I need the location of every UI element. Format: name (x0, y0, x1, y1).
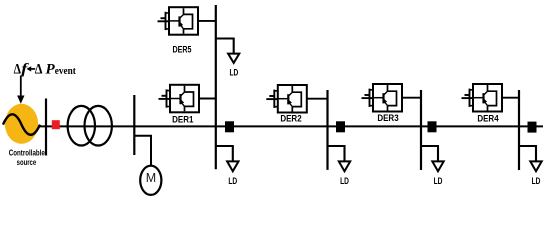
svg-text:DER5: DER5 (173, 44, 192, 54)
svg-text:event: event (55, 65, 76, 77)
svg-text:DER3: DER3 (377, 113, 398, 123)
svg-text:Controllable: Controllable (9, 147, 45, 157)
svg-text:DER4: DER4 (477, 113, 498, 123)
svg-text:source: source (17, 157, 37, 167)
svg-text:M: M (146, 171, 156, 185)
svg-text:LD: LD (230, 67, 239, 77)
svg-text:Δ: Δ (35, 61, 43, 77)
svg-text:DER2: DER2 (280, 113, 301, 123)
svg-text:Δ: Δ (14, 61, 21, 77)
svg-text:DER1: DER1 (172, 114, 193, 124)
